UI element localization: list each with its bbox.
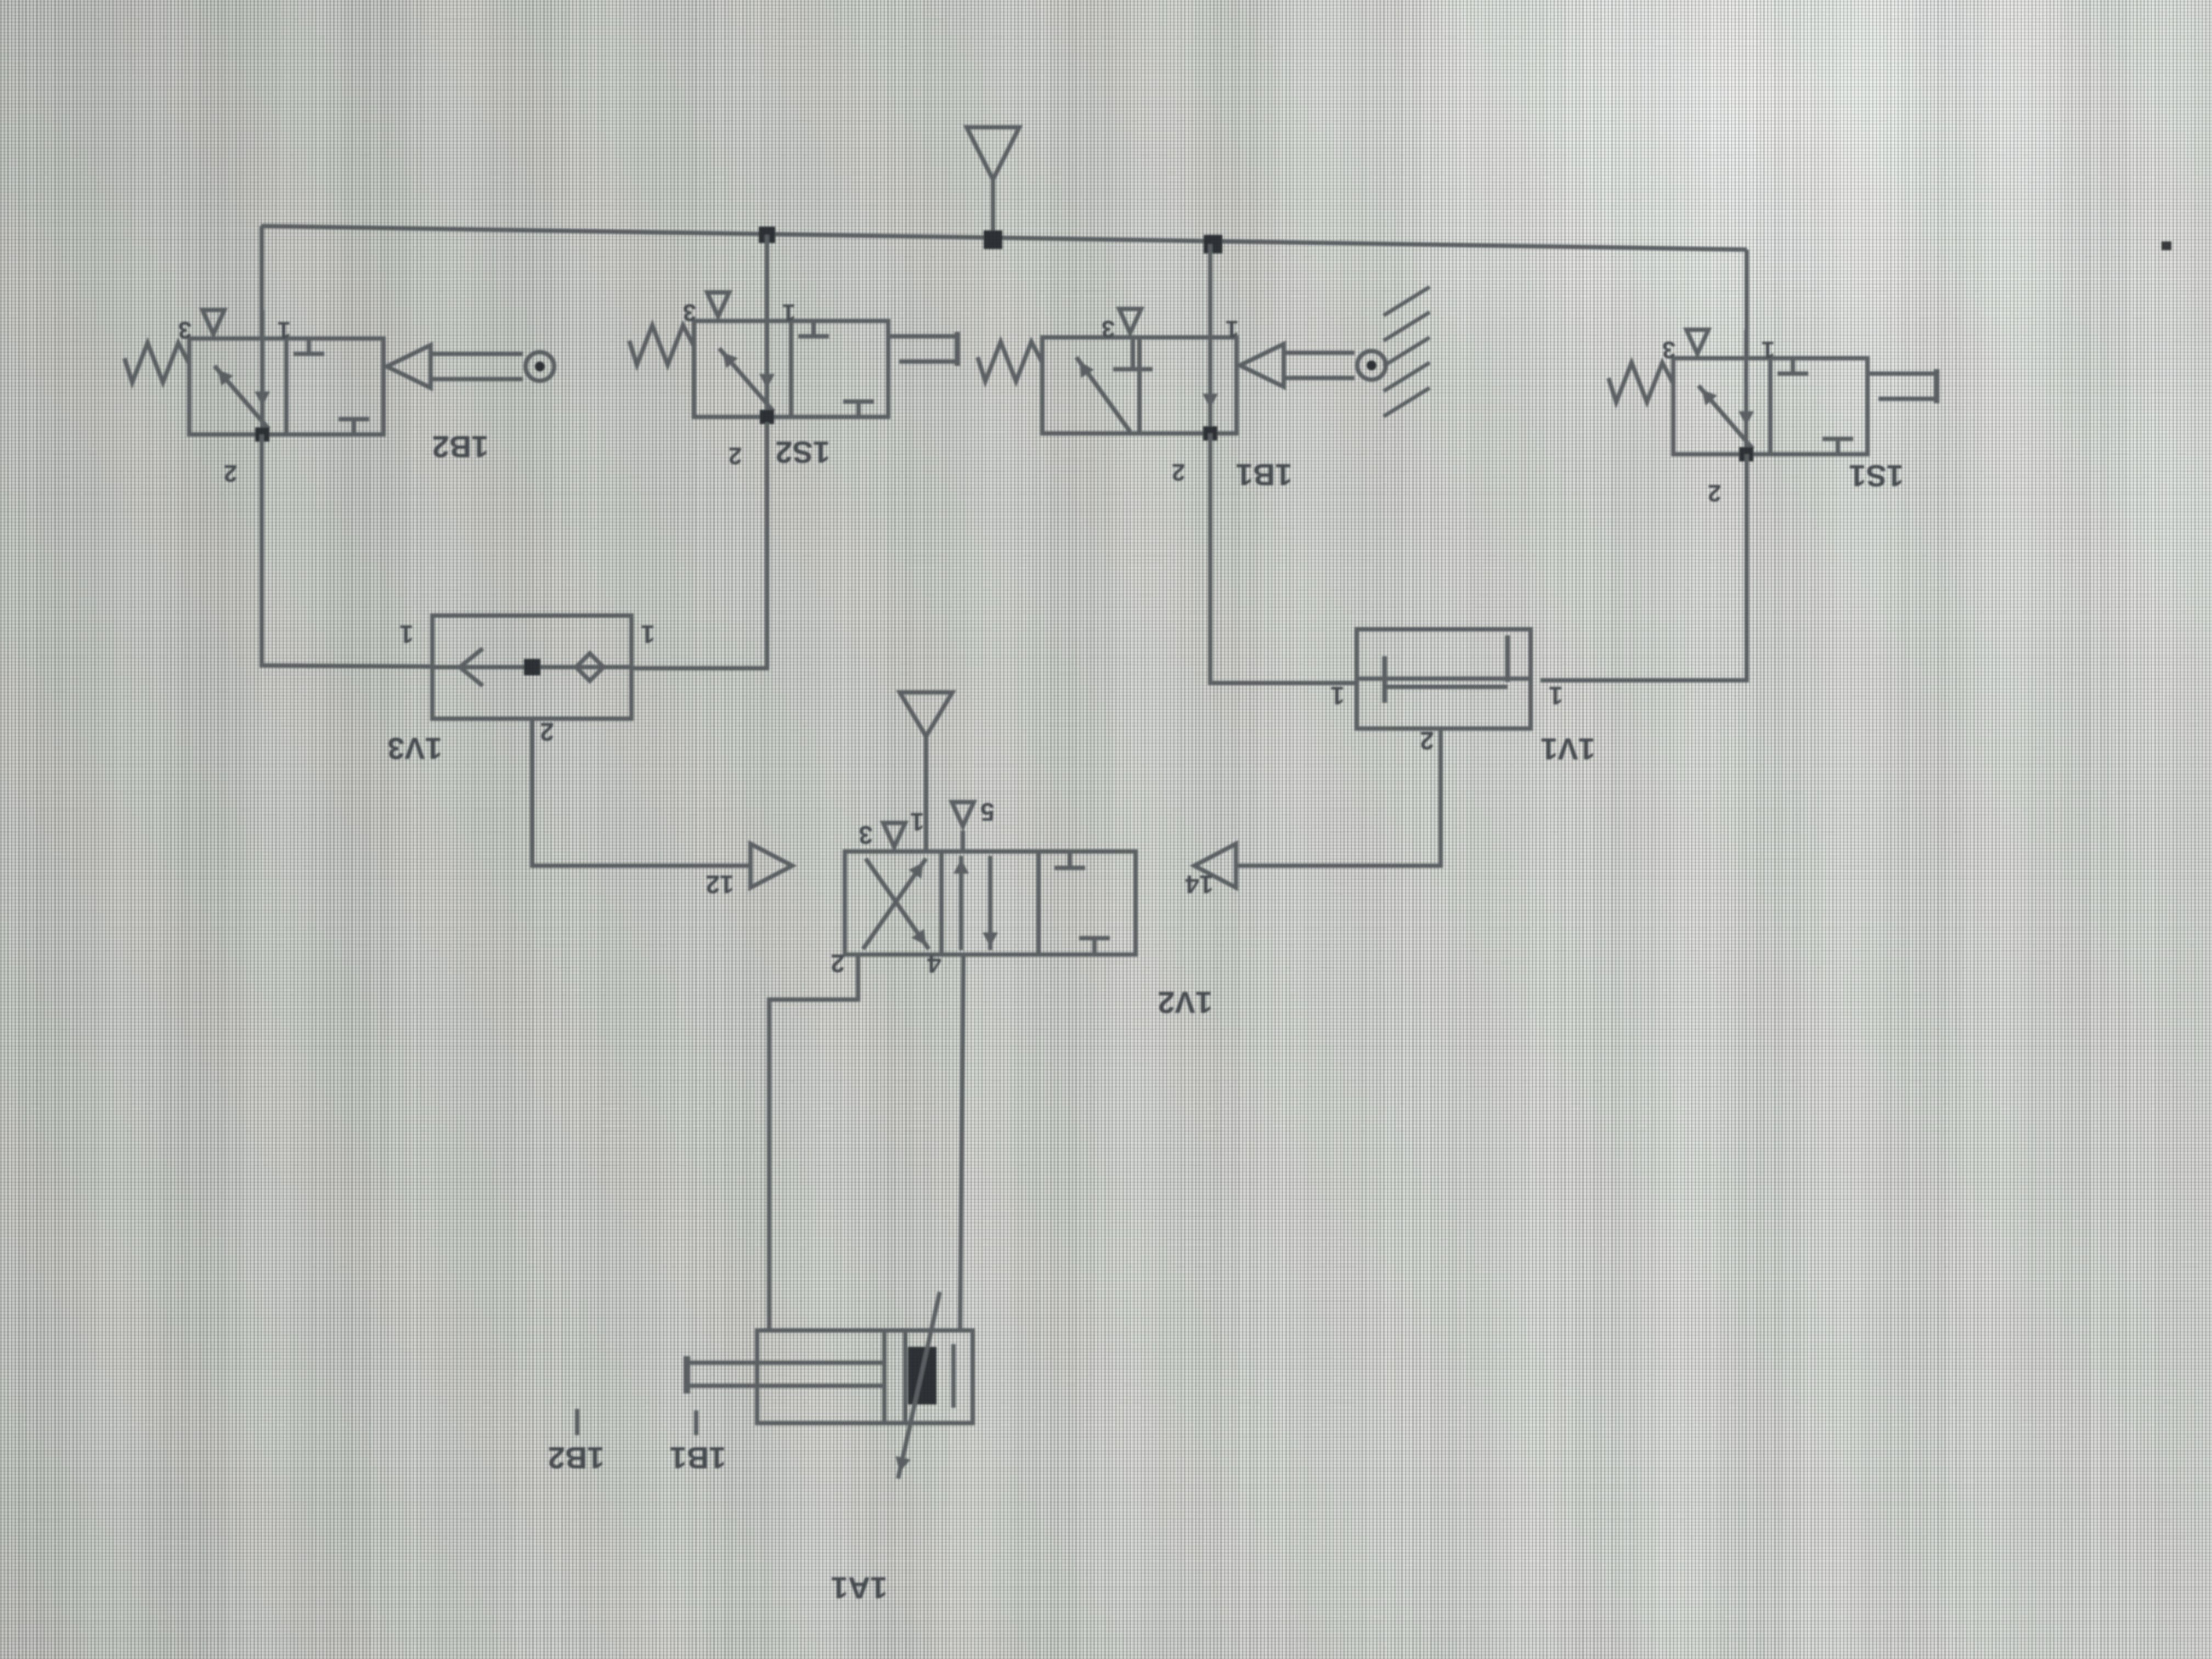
valve 1B2 blocked port T symbol (bottom, right cell) [352, 419, 356, 435]
throttle valve 1V1 body [1357, 629, 1531, 729]
shuttle valve 1V3 left seat chevron [460, 648, 483, 686]
pilot port 14 triangle of valve 1V2 [1194, 844, 1236, 888]
svg-text:1S2: 1S2 [775, 435, 830, 470]
valve 1B1 port 1 stub [1208, 309, 1212, 337]
svg-text:1: 1 [1330, 681, 1345, 710]
svg-text:1: 1 [399, 620, 414, 648]
valve 1S1 blocked port T symbol (bottom, right cell) [1836, 439, 1840, 454]
valve 1B2 rest-position flow diagonal with arrow [215, 366, 269, 429]
valve 1S2 return spring [629, 325, 694, 365]
valve 1S1 port 1 stub [1744, 330, 1748, 358]
throttle valve 1V1 left restrictor bar [1383, 656, 1387, 703]
valve 1B2 return spring [125, 343, 189, 382]
svg-text:1: 1 [641, 620, 655, 648]
svg-text:1B2: 1B2 [548, 1441, 605, 1475]
5/3-way valve 1V2 body [845, 851, 1136, 955]
valve 1S2 port 3 exhaust triangle [707, 292, 729, 317]
valve 1B1 body [1042, 337, 1237, 433]
valve 1B2 pass-through flow line with arrow (port axis) [260, 338, 264, 435]
valve 1S1 body [1673, 358, 1867, 454]
svg-text:3: 3 [683, 299, 696, 326]
svg-text:3: 3 [1102, 315, 1115, 342]
cylinder 1A1 piston plates [882, 1333, 887, 1421]
wire: bus to valve 1S2 port 1 [765, 235, 769, 321]
svg-text:1V3: 1V3 [387, 731, 442, 766]
svg-text:1V2: 1V2 [1158, 985, 1212, 1020]
valve 1B2 roller actuator stem [431, 352, 523, 356]
wire: bus left corner down to valve 1B2 port 1 [259, 226, 264, 338]
svg-text:2: 2 [1420, 726, 1434, 755]
throttle valve 1V1 right restrictor bar [1505, 635, 1510, 682]
wire: valve 1B2 port 2 down-left loop to shuttle valve 1V3 [262, 435, 432, 667]
cylinder 1A1 rod end plate [684, 1356, 690, 1393]
shuttle valve 1V3 through line [432, 665, 631, 669]
svg-text:3: 3 [178, 317, 191, 343]
cylinder 1A1 magnet block [908, 1347, 936, 1404]
valve 1S1 port 3 exhaust triangle [1686, 330, 1708, 354]
cylinder 1A1 barrel [757, 1330, 973, 1423]
svg-text:1: 1 [1226, 315, 1239, 342]
svg-text:1V1: 1V1 [1541, 732, 1595, 766]
wire: valve 1V2 port 2 to cylinder 1A1 rod-side port [769, 955, 858, 1330]
valve 1S1 blocked port T symbol (top, right cell) [1791, 358, 1795, 374]
limit switch position tick 1B2 [575, 1409, 579, 1435]
valve 1B2 roller actuator lever [387, 345, 431, 388]
valve 1B1 roller actuator lever [1240, 344, 1284, 387]
valve 1S2 body [694, 321, 888, 417]
valve 1S2 pushbutton plate [955, 332, 960, 366]
junction node at valve 1B1 feed [1204, 235, 1222, 253]
valve 1S1 pushbutton plate [1934, 369, 1939, 403]
5/3-way valve 1V2 straight flow paths (middle cell) [959, 856, 963, 950]
svg-text:2: 2 [540, 718, 554, 746]
wire: bus to valve 1B1 port 1 [1208, 244, 1212, 337]
svg-text:1B1: 1B1 [1236, 458, 1293, 492]
throttle valve 1V1 lower channel line [1385, 685, 1508, 689]
svg-text:2: 2 [831, 949, 845, 978]
valve 1S2 port 1 stub [765, 292, 769, 321]
valve 1B1 pass-through line with arrow (right cell) [1208, 340, 1212, 431]
dark speck on screen right edge [2162, 241, 2171, 250]
svg-text:1: 1 [1762, 336, 1775, 363]
svg-text:1: 1 [782, 299, 795, 326]
svg-text:1A1: 1A1 [831, 1571, 888, 1605]
valve 1S1 rest-position flow diagonal with arrow [1699, 386, 1753, 449]
shuttle valve 1V3 body [432, 616, 631, 719]
valve 1B1 blocked port (T symbol) left cell [1131, 337, 1135, 369]
valve 1B2 roller wheel [526, 352, 554, 381]
valve 1V2 port 5 exhaust triangle [961, 831, 965, 851]
air supply symbol at valve 1V2 port 1 [900, 692, 952, 736]
valve 1S2 rest-position flow diagonal with arrow [719, 348, 774, 411]
wire: valve 1S2 port 2 down to shuttle valve 1V3 right input [631, 422, 767, 668]
shuttle valve 1V3 output junction node [524, 659, 540, 675]
valve 1B1 port 2 connection nub [1203, 426, 1217, 441]
valve 1B1 roller actuator stem [1284, 351, 1355, 355]
svg-text:2: 2 [224, 460, 237, 487]
valve 1S2 blocked port T symbol (top, right cell) [811, 321, 816, 336]
svg-text:1: 1 [278, 317, 291, 343]
valve 1B2 blocked port T symbol (top, right cell) [307, 338, 311, 354]
wire: shuttle valve 1V3 output to pilot port 12 of valve 1V2 [532, 719, 751, 866]
valve 1S2 pass-through flow line with arrow (port axis) [765, 321, 769, 417]
valve 1S2 port 2 connection nub [760, 410, 774, 424]
svg-text:5: 5 [980, 798, 995, 826]
shuttle valve 1V3 sealing ball (diamond) [576, 653, 603, 681]
valve 1B2 port 2 connection nub [255, 427, 269, 442]
svg-text:2: 2 [729, 442, 742, 469]
svg-text:3: 3 [859, 821, 873, 849]
svg-text:1B2: 1B2 [432, 430, 489, 464]
valve 1S1 pushbutton stem [1867, 371, 1936, 376]
5/3-way valve 1V2 blocked centre (T symbols, right cell) [1068, 851, 1072, 868]
junction node at valve 1S2 feed [759, 227, 775, 243]
valve 1B2 body [189, 338, 383, 435]
svg-text:1: 1 [1549, 681, 1563, 710]
valve 1B1 port 3 exhaust triangle [1119, 309, 1141, 333]
svg-text:3: 3 [1662, 336, 1675, 363]
valve 1S2 blocked port T symbol (bottom, right cell) [856, 402, 861, 417]
cylinder 1A1 piston rod [689, 1361, 884, 1365]
wire: valve 1V2 port 4 to cylinder 1A1 piston-side port [960, 955, 963, 1330]
valve 1B1 return spring [978, 342, 1042, 381]
svg-text:14: 14 [1185, 870, 1214, 899]
valve 1S1 return spring [1609, 363, 1673, 402]
valve 1B1 actuated flow path diagonal with arrow [1076, 357, 1130, 432]
wire: valve 1B1 port 2 down to two-pressure valve 1V1 left input [1210, 433, 1358, 683]
valve 1B1 idle-return hatch flag [1384, 287, 1430, 315]
main supply line (bus) [261, 226, 1747, 250]
valve 1B2 port 3 exhaust triangle [202, 310, 224, 334]
cylinder 1A1 adjustable cushioning arrow [898, 1292, 940, 1479]
cylinder 1A1 cushioning sleeve line [951, 1344, 956, 1408]
valve 1S2 pushbutton stem [888, 334, 956, 338]
valve 1V2 port 3 exhaust triangle [883, 823, 905, 847]
5/3-way valve 1V2 crossed flow paths (left cell) [863, 859, 926, 949]
svg-text:4: 4 [927, 950, 941, 978]
svg-text:1: 1 [910, 808, 924, 836]
junction node at supply triangle [984, 230, 1002, 249]
limit switch position tick 1B1 [694, 1410, 698, 1435]
wire: throttle valve 1V1 output to pilot port 14 of valve 1V2 [1236, 729, 1441, 866]
svg-text:1B1: 1B1 [670, 1441, 726, 1475]
pilot port 12 triangle of valve 1V2 [751, 844, 792, 888]
svg-text:2: 2 [1708, 479, 1721, 506]
throttle valve 1V1 upper channel line [1357, 676, 1531, 681]
valve 1S1 pass-through flow line with arrow (port axis) [1744, 358, 1748, 454]
wire: bus right corner down to valve 1S1 port 1 [1745, 250, 1749, 358]
svg-text:1S1: 1S1 [1849, 459, 1904, 493]
compressed air supply symbol (triangle on main line) [967, 127, 1019, 179]
svg-text:2: 2 [1172, 459, 1185, 486]
svg-text:12: 12 [706, 870, 733, 899]
valve 1B2 port 1 stub [260, 310, 264, 338]
valve 1B1 roller wheel [1357, 351, 1386, 380]
valve 1S1 port 2 connection nub [1739, 447, 1753, 461]
wire: valve 1S1 port 2 down to two-pressure valve 1V1 right input [1541, 454, 1747, 680]
